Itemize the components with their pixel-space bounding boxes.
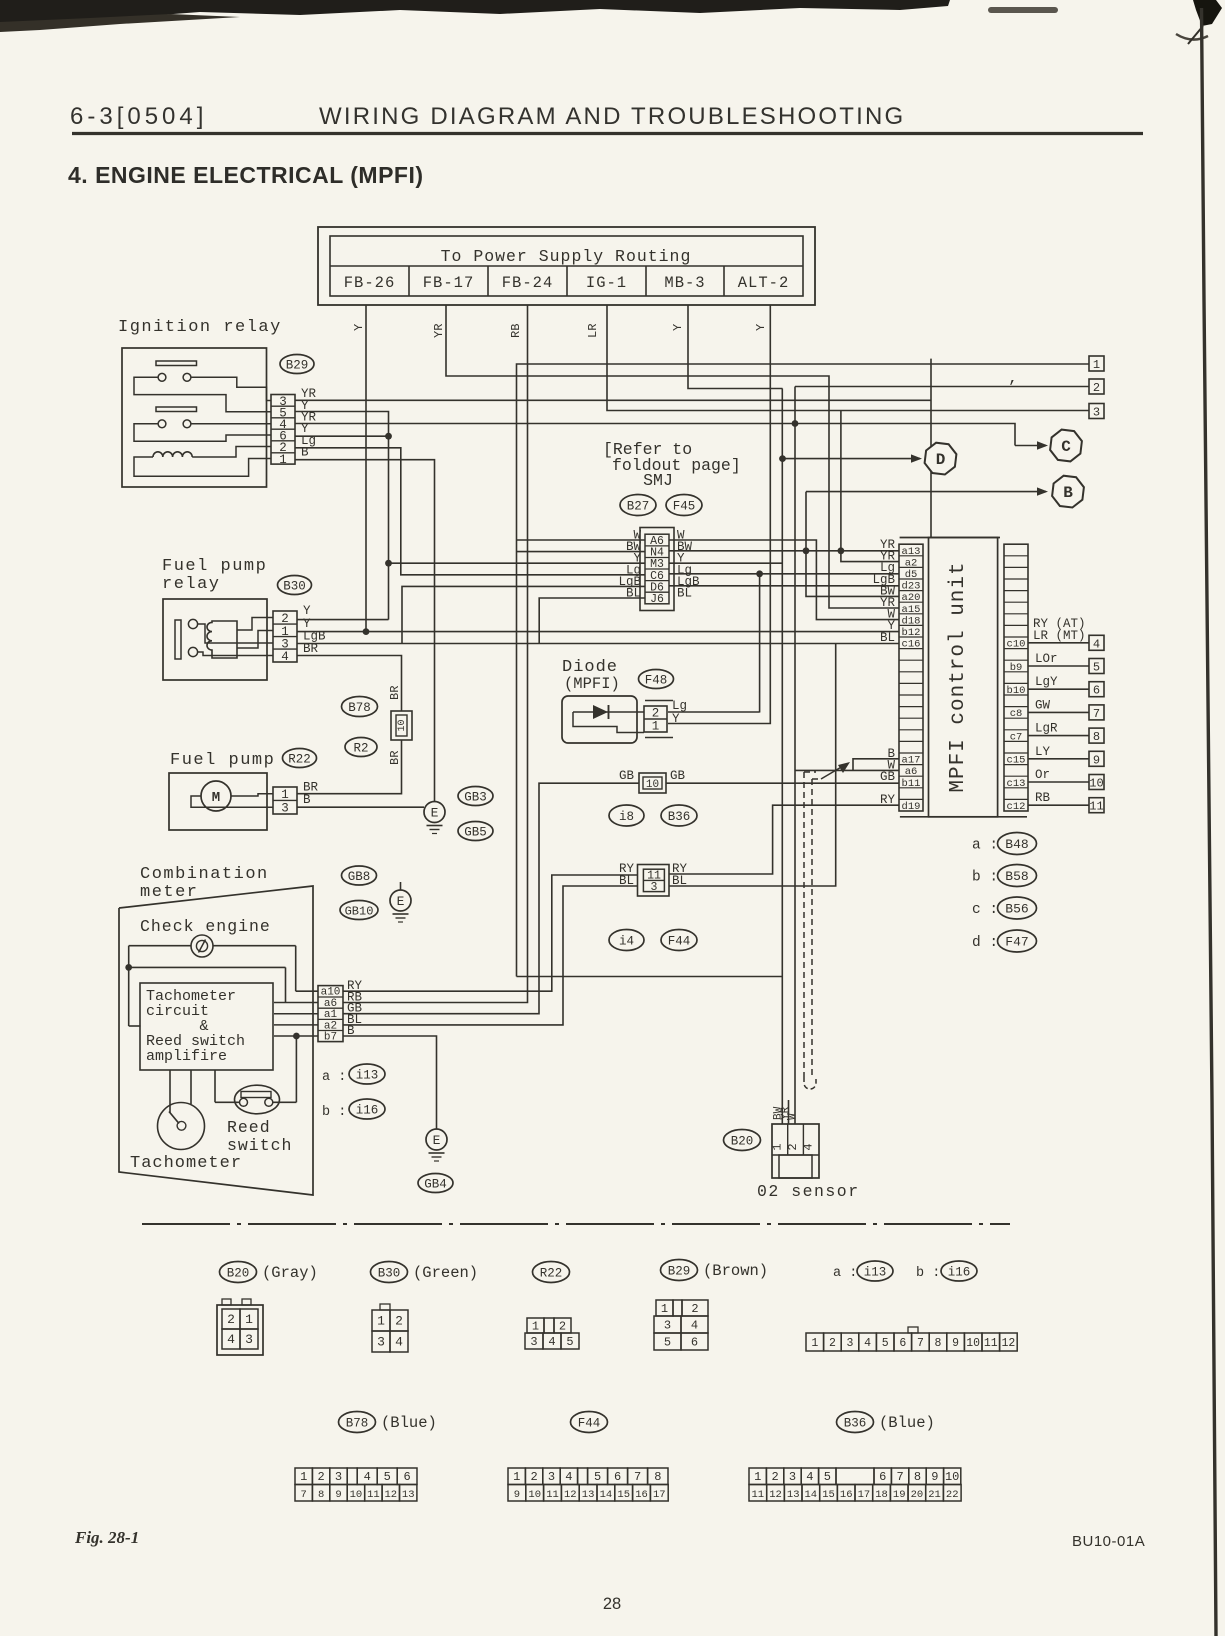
svg-text:Y: Y (352, 324, 366, 331)
svg-text:B36: B36 (844, 1417, 867, 1431)
svg-text:3: 3 (530, 1335, 537, 1349)
check engine lamp (191, 935, 213, 957)
fuel pump (169, 751, 275, 830)
label Y MPFI b12 (887, 619, 895, 633)
wire check engine lamp to a10 (213, 946, 318, 992)
svg-text:5: 5 (594, 1470, 601, 1484)
svg-text:1: 1 (652, 720, 660, 734)
wire tach links (170, 1070, 240, 1113)
svg-text:,: , (1008, 369, 1018, 387)
connector F45 ellipse (666, 495, 702, 516)
junction Y at D branch (779, 455, 786, 462)
power supply routing box (318, 227, 815, 305)
svg-text:5: 5 (824, 1470, 831, 1484)
wire Y FB-26 drop (365, 305, 367, 632)
svg-text:B20: B20 (227, 1267, 250, 1281)
svg-text:2: 2 (395, 1314, 403, 1329)
wire meter b7 stub (274, 1035, 318, 1037)
label LgB SMJ right (677, 575, 700, 589)
svg-text:Reed: Reed (227, 1118, 271, 1137)
svg-text:d :: d : (972, 935, 998, 951)
label BL SMJ left (626, 587, 641, 601)
terminal box 1 (1089, 356, 1104, 372)
svg-text:E: E (431, 806, 439, 821)
header title (319, 103, 905, 130)
fuse 10 BR (391, 711, 412, 740)
svg-text:11: 11 (367, 1489, 380, 1501)
svg-text:2: 2 (829, 1337, 836, 1350)
label BL conn11 right (672, 874, 687, 888)
connector i8 ellipse (609, 805, 644, 826)
svg-text:16: 16 (840, 1489, 853, 1501)
junction Y pin5 pin6 (385, 433, 392, 440)
wire LgB D6 right to d23 (669, 585, 899, 587)
svg-text:J6: J6 (650, 593, 664, 606)
wire BR fpr pin4 to fuse (297, 656, 402, 712)
svg-text:GB: GB (670, 769, 686, 783)
connector GB5 ellipse (458, 822, 493, 841)
label LgB fpr pin3 (303, 630, 326, 644)
svg-text:6: 6 (691, 1336, 698, 1350)
svg-text:2: 2 (530, 1470, 537, 1484)
wire meter a6 stub (274, 1002, 318, 1004)
svg-text:1: 1 (532, 1320, 539, 1334)
label GB MPFI b11 (880, 770, 896, 784)
wire Y ignition pin5 (295, 412, 389, 437)
svg-text:10: 10 (397, 719, 408, 731)
svg-text:b :: b : (916, 1266, 940, 1281)
svg-text:11: 11 (546, 1489, 559, 1501)
label YR pin3 (301, 387, 317, 401)
combination meter outline (119, 865, 313, 1195)
svg-text:FB-17: FB-17 (423, 274, 475, 292)
svg-text:GB8: GB8 (348, 870, 371, 884)
scan comma mark (1008, 369, 1018, 387)
svg-text:GB: GB (619, 769, 635, 783)
connector F44 ellipse bottom (571, 1412, 608, 1433)
svg-text:YR: YR (432, 324, 446, 338)
svg-text:Y: Y (754, 324, 768, 331)
svg-text:E: E (433, 1133, 441, 1148)
svg-text:B58: B58 (1005, 869, 1028, 884)
junction Lg at YR cross (792, 420, 799, 427)
svg-text:5: 5 (1093, 661, 1100, 675)
wire Or to terminal 10 (1028, 768, 1104, 791)
svg-text:10: 10 (646, 779, 659, 791)
svg-text:R22: R22 (288, 753, 311, 767)
svg-text:(Blue): (Blue) (879, 1414, 935, 1432)
label Blue B78 (381, 1414, 437, 1432)
fuel pump relay (162, 557, 273, 680)
junction FB-26 Y to fuel pump relay pin1 (363, 628, 370, 635)
label BR fpr pin4 (303, 642, 319, 656)
svg-text:15: 15 (617, 1489, 630, 1501)
svg-text:6: 6 (614, 1470, 621, 1484)
svg-text:B: B (303, 793, 311, 807)
wire meter a2 stub (274, 1024, 318, 1026)
svg-text:7: 7 (896, 1470, 903, 1484)
svg-text:10: 10 (966, 1337, 980, 1350)
svg-text:14: 14 (804, 1489, 817, 1501)
svg-text:R2: R2 (353, 742, 368, 756)
svg-text:8: 8 (935, 1337, 942, 1350)
svg-text:5: 5 (882, 1337, 889, 1350)
label W SMJ right (677, 529, 685, 543)
shield drain arrow (821, 762, 850, 779)
svg-text:17: 17 (653, 1489, 666, 1501)
svg-text:B36: B36 (668, 810, 691, 824)
label b i16 bottom (916, 1261, 977, 1281)
svg-text:BL: BL (880, 631, 895, 645)
wire B ignition pin1 to ground (295, 460, 435, 802)
svg-text:Y: Y (672, 712, 680, 726)
svg-text:18: 18 (875, 1489, 888, 1501)
connector B30 ellipse bottom (371, 1262, 408, 1283)
svg-text:switch: switch (227, 1136, 292, 1155)
separator dashed line (142, 1223, 1010, 1225)
svg-text:BL: BL (619, 874, 634, 888)
label Lg diode pin2 (672, 699, 687, 713)
wire Y fpr pin1 to b12 (297, 631, 899, 633)
wire to node D (783, 454, 923, 462)
node B octagon (1052, 476, 1084, 508)
svg-text:16: 16 (635, 1489, 648, 1501)
shield dashed left (804, 772, 816, 1077)
wire LOr to terminal 5 (1028, 652, 1104, 675)
connector GB3 ellipse (458, 787, 493, 806)
svg-text:BR: BR (388, 751, 402, 765)
label YR MPFI a15 (880, 596, 896, 610)
svg-text:11: 11 (1089, 800, 1103, 814)
svg-text:MB-3: MB-3 (664, 274, 705, 292)
label Lg SMJ left (626, 563, 641, 577)
svg-text:foldout page]: foldout page] (612, 456, 741, 475)
svg-text:6: 6 (899, 1337, 906, 1350)
svg-text:a :: a : (833, 1266, 857, 1281)
wire LgB D6 left (402, 586, 645, 643)
wire Y M3 line left (389, 562, 646, 564)
svg-text:B30: B30 (378, 1267, 401, 1281)
svg-text:4: 4 (864, 1337, 871, 1350)
label B MPFI a17 (887, 747, 895, 761)
wire GB fuse to b11 (666, 782, 899, 784)
svg-text:8: 8 (1093, 730, 1100, 744)
svg-text:B48: B48 (1005, 837, 1028, 852)
svg-text:19: 19 (893, 1489, 906, 1501)
svg-text:9: 9 (514, 1489, 520, 1501)
svg-text:RB: RB (1035, 791, 1051, 805)
svg-text:2: 2 (652, 707, 660, 721)
wire RB to terminal 11 (1028, 791, 1104, 814)
svg-text:1: 1 (279, 453, 287, 467)
wire YR FB-17 to a15 (446, 305, 899, 608)
svg-text:relay: relay (162, 575, 221, 594)
svg-text:Fuel pump: Fuel pump (162, 557, 267, 576)
label B fp pin3 (303, 793, 311, 807)
svg-text:14: 14 (600, 1489, 613, 1501)
svg-text:17: 17 (858, 1489, 871, 1501)
label Y diode pin1 (672, 712, 680, 726)
svg-text:GB: GB (880, 770, 896, 784)
wire Y ALT-2 to diode pin1 (668, 305, 770, 724)
label Blue B36 (879, 1414, 935, 1432)
label YR MPFI a13 (880, 538, 896, 552)
svg-text:Combination: Combination (140, 865, 269, 884)
svg-text:1: 1 (754, 1470, 761, 1484)
SMJ connector block pins A6 N4 M3 C6 D6 J6 (640, 528, 674, 611)
connector B30 ellipse (278, 576, 312, 595)
svg-text:13: 13 (787, 1489, 800, 1501)
svg-text:4: 4 (565, 1470, 572, 1484)
svg-text:d19: d19 (902, 801, 921, 813)
label b i16 (322, 1099, 385, 1120)
connector B78 ellipse bottom (339, 1412, 376, 1433)
connector view R22 pins 1 2 3 4 5 (525, 1318, 579, 1349)
wire meter a1 stub (274, 1013, 318, 1015)
wire RY conn11 right to d19 (669, 805, 899, 874)
svg-text:Fig. 28-1: Fig. 28-1 (74, 1528, 139, 1547)
wire GW to terminal 7 (1028, 698, 1104, 721)
svg-text:LgY: LgY (1035, 675, 1058, 689)
svg-text:b :: b : (322, 1105, 346, 1120)
connector view B20 pins 2 1 4 3 (217, 1299, 263, 1355)
svg-text:1: 1 (513, 1470, 520, 1484)
connector block 11 3 (638, 865, 670, 897)
wire RY meter a10 (343, 875, 638, 991)
section title (68, 162, 424, 188)
connector view 12pin strip (806, 1327, 1017, 1351)
svg-text:LgR: LgR (1035, 722, 1058, 736)
label GB meter a1 (347, 1002, 363, 1016)
svg-text:E: E (397, 894, 405, 909)
svg-text:RB: RB (509, 324, 523, 338)
svg-text:3: 3 (789, 1470, 796, 1484)
svg-text:ALT-2: ALT-2 (738, 274, 790, 292)
svg-text:a :: a : (972, 838, 998, 854)
svg-text:1: 1 (661, 1302, 668, 1316)
wire Lg ignition pin2 to SMJ C6 (295, 448, 645, 575)
svg-text:4: 4 (806, 1470, 813, 1484)
svg-text:SMJ: SMJ (643, 471, 673, 490)
wire check engine to box (129, 967, 141, 1026)
svg-text:6: 6 (879, 1470, 886, 1484)
connector R22 ellipse bottom (533, 1262, 570, 1283)
svg-text:B: B (1063, 484, 1073, 502)
label Gray (262, 1264, 318, 1282)
tachometer circuit box (140, 983, 273, 1070)
wire BW N4 left (517, 551, 646, 553)
svg-text:1: 1 (811, 1337, 818, 1350)
svg-text:8: 8 (318, 1489, 324, 1501)
wire W A6 right to d18 (669, 540, 899, 620)
wire W terminal1 vertical (517, 364, 1090, 977)
wire BL conn11 right to c16 (669, 644, 836, 887)
svg-text:GB3: GB3 (464, 791, 487, 805)
svg-text:B56: B56 (1005, 902, 1028, 917)
connector F48 ellipse (639, 670, 674, 689)
label BR above fuse (388, 686, 402, 700)
svg-text:GW: GW (1035, 698, 1051, 712)
label Lg MPFI d5 (880, 561, 895, 575)
svg-text:LY: LY (1035, 745, 1051, 759)
wire Lg diode pin2 (668, 711, 760, 713)
wire W a6 02sensor (795, 769, 899, 771)
svg-text:GB5: GB5 (464, 826, 487, 840)
svg-text:3: 3 (245, 1332, 253, 1347)
svg-text:2: 2 (559, 1320, 566, 1334)
label YR at FB-17 drop (432, 324, 446, 338)
fuel pump pin block R22 pins 1 3 (273, 787, 297, 816)
label Y at MB-3 drop (671, 324, 685, 331)
label BL conn11 left (619, 874, 634, 888)
combination meter pin block pins a10 a6 a1 a2 b7 (318, 986, 343, 1044)
junction b7 to reed (273, 1033, 300, 1103)
svg-text:4: 4 (691, 1319, 698, 1333)
svg-text:5: 5 (566, 1335, 573, 1349)
svg-text:B27: B27 (627, 500, 650, 514)
svg-text:4: 4 (227, 1332, 235, 1347)
label RY conn11 right (672, 862, 688, 876)
label BW SMJ left (626, 540, 642, 554)
MPFI control unit box (900, 538, 1027, 817)
svg-text:2: 2 (1093, 381, 1100, 395)
page number (603, 1595, 621, 1613)
label Y at FB-26 drop (352, 324, 366, 331)
svg-text:2: 2 (771, 1470, 778, 1484)
reed switch label (227, 1118, 292, 1155)
svg-text:GB4: GB4 (424, 1178, 447, 1192)
wire W A6 left (517, 539, 646, 541)
label b B58 (972, 865, 1037, 887)
wire LY to terminal 9 (1028, 745, 1104, 768)
diode label (562, 658, 620, 693)
connector B29 ellipse (280, 355, 314, 374)
svg-text:1: 1 (771, 1143, 785, 1150)
svg-text:i8: i8 (619, 810, 634, 824)
wire YR ignition pin3 to MPFI (295, 359, 931, 537)
wire LgB fpr pin3 to c16 (297, 643, 899, 645)
svg-text:Fuel pump: Fuel pump (170, 751, 275, 770)
wire Y bus vertical (388, 436, 390, 619)
svg-text:Check engine: Check engine (140, 917, 271, 936)
svg-text:(Blue): (Blue) (381, 1414, 437, 1432)
reed switch symbol (235, 1085, 280, 1114)
junction Y bus at M3 line (385, 560, 392, 567)
svg-text:b :: b : (972, 870, 998, 886)
wire LR IG-1 to terminal 3 (607, 305, 1089, 411)
wire Y MB-3 drop (688, 305, 783, 389)
wire RY (AT) to terminal 4 (1028, 617, 1104, 652)
svg-text:c12: c12 (1007, 801, 1026, 813)
label Y pin5 (301, 399, 309, 413)
svg-text:i16: i16 (356, 1104, 379, 1118)
connector F44 ellipse (661, 930, 697, 951)
connector i4 ellipse (609, 930, 644, 951)
svg-text:RY: RY (880, 793, 896, 807)
svg-text:15: 15 (822, 1489, 835, 1501)
svg-text:GB10: GB10 (345, 905, 374, 919)
wire BW a20 (806, 492, 899, 597)
svg-text:LR: LR (586, 324, 600, 338)
svg-text:02 sensor: 02 sensor (757, 1182, 860, 1201)
svg-text:B29: B29 (286, 359, 309, 373)
label W MPFI d18 (887, 608, 895, 622)
label YR pin4 (301, 411, 317, 425)
svg-text:F48: F48 (645, 674, 668, 688)
connector R22 ellipse (283, 749, 317, 768)
svg-text:Y: Y (303, 604, 311, 618)
connector B20 ellipse bottom (220, 1262, 257, 1283)
svg-text:4: 4 (281, 650, 289, 664)
svg-text:B30: B30 (283, 580, 306, 594)
svg-text:9: 9 (335, 1489, 341, 1501)
02 sensor label (757, 1182, 860, 1201)
label BL MPFI c16 (880, 631, 895, 645)
svg-text:IG-1: IG-1 (586, 274, 627, 292)
label Lg SMJ right (677, 563, 692, 577)
wire Lg C6 right to d5 (669, 570, 899, 577)
svg-text:W: W (787, 1113, 799, 1120)
svg-text:1: 1 (245, 1312, 253, 1327)
svg-text:7: 7 (634, 1470, 641, 1484)
svg-text:F44: F44 (668, 935, 691, 949)
wire YR a2 (841, 411, 899, 562)
svg-text:i4: i4 (619, 935, 634, 949)
svg-text:7: 7 (1093, 707, 1100, 721)
svg-text:12: 12 (384, 1489, 397, 1501)
svg-text:amplifire: amplifire (146, 1048, 227, 1065)
svg-text:To Power Supply Routing: To Power Supply Routing (441, 247, 692, 266)
connector view B29 pins 1 2 3 4 5 6 (654, 1300, 708, 1350)
wire B fp pin3 to ground (297, 806, 424, 808)
label Lg pin2 (301, 434, 316, 448)
label a i13 bottom (833, 1261, 893, 1281)
label c B56 (972, 897, 1037, 919)
svg-text:C: C (1061, 438, 1071, 456)
wire Lg terminal2 branch (795, 387, 1089, 1125)
connector B27 ellipse (620, 495, 656, 516)
label Y pin6 (301, 422, 309, 436)
svg-text:F45: F45 (673, 500, 696, 514)
svg-text:B78: B78 (346, 1417, 369, 1431)
svg-text:(MPFI): (MPFI) (564, 675, 620, 693)
wire to node B (806, 487, 1048, 495)
scan smudge top (0, 0, 1058, 32)
svg-text:(Gray): (Gray) (262, 1264, 318, 1282)
tachometer label (130, 1154, 242, 1173)
svg-text:FB-26: FB-26 (344, 274, 396, 292)
wire check engine left (129, 946, 191, 968)
svg-text:9: 9 (952, 1337, 959, 1350)
label GB fuse left (619, 769, 635, 783)
shield dashed right (812, 779, 822, 1077)
label BL meter a2 (347, 1013, 362, 1027)
svg-text:13: 13 (582, 1489, 595, 1501)
label BR below fuse (388, 751, 402, 765)
svg-text:LOr: LOr (1035, 652, 1058, 666)
svg-text:5: 5 (664, 1336, 671, 1350)
svg-text:2: 2 (317, 1470, 324, 1484)
svg-text:B29: B29 (668, 1265, 691, 1279)
label BW MPFI a20 (880, 584, 896, 598)
svg-text:3: 3 (651, 881, 658, 894)
label RY MPFI d19 (880, 793, 896, 807)
svg-text:6: 6 (1093, 684, 1100, 698)
label B meter b7 (347, 1024, 355, 1038)
svg-text:6: 6 (403, 1470, 410, 1484)
svg-text:3: 3 (335, 1470, 342, 1484)
svg-text:F44: F44 (578, 1417, 601, 1431)
